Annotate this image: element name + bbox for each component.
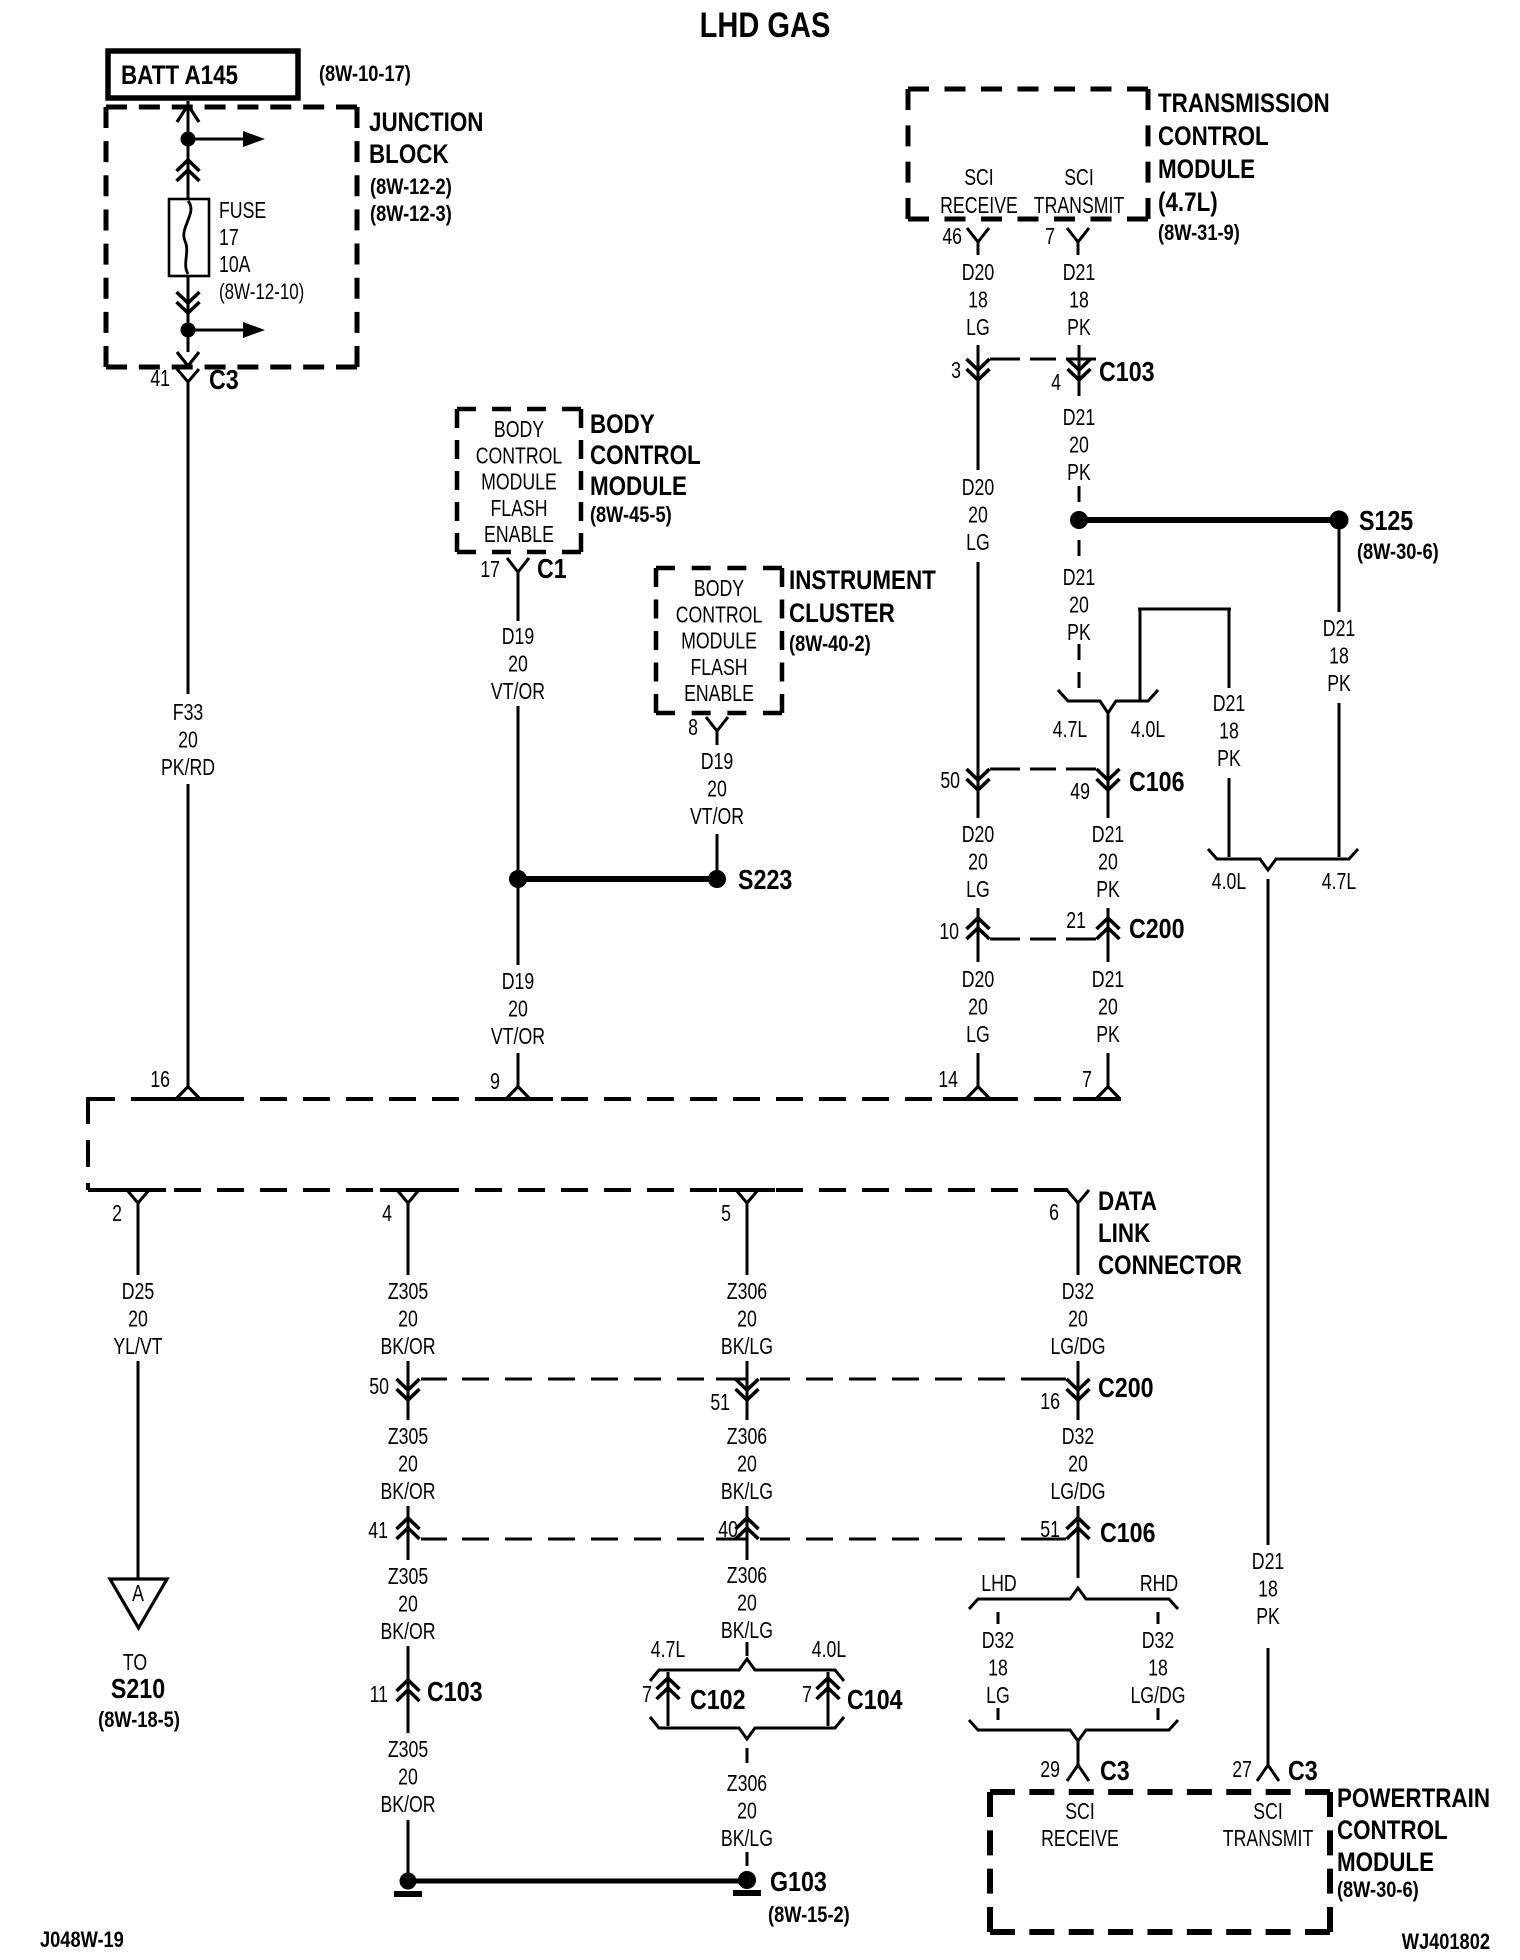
instrument cluster box — [656, 568, 782, 713]
fuse 17 10A — [169, 199, 209, 276]
wire D21 below C106 — [1107, 790, 1110, 818]
pin 4 label — [1051, 370, 1061, 396]
svg-text:14: 14 — [938, 1067, 958, 1093]
svg-text:C103: C103 — [427, 1677, 483, 1707]
svg-text:SCI: SCI — [1065, 1799, 1095, 1825]
connector C103 lower label — [427, 1677, 483, 1707]
svg-text:20: 20 — [128, 1306, 148, 1332]
wire Z305 upper — [407, 1216, 410, 1275]
svg-text:20: 20 — [1068, 1306, 1088, 1332]
svg-text:20: 20 — [178, 727, 198, 753]
node pin14 junction on bus — [943, 1087, 1013, 1100]
svg-text:20: 20 — [398, 1764, 418, 1790]
junction block label — [369, 108, 483, 226]
wire Z306 to C200 — [746, 1361, 749, 1400]
pin 51 label (C200) — [710, 1390, 730, 1416]
svg-text:LG/DG: LG/DG — [1050, 1479, 1105, 1505]
connector C3 label — [209, 365, 239, 395]
svg-text:CONTROL: CONTROL — [1337, 1816, 1448, 1845]
svg-text:18: 18 — [1148, 1655, 1168, 1681]
svg-text:C103: C103 — [1099, 357, 1155, 387]
svg-text:Z306: Z306 — [727, 1563, 767, 1589]
wire label D21 18 PK (right) — [1323, 616, 1355, 697]
svg-text:20: 20 — [1069, 592, 1089, 618]
svg-text:C106: C106 — [1129, 767, 1185, 797]
svg-text:BODY: BODY — [590, 410, 655, 439]
svg-text:TO: TO — [123, 1650, 147, 1676]
wire SCI receive to C103 — [977, 345, 980, 382]
bus solid segment at pin 4 — [380, 1188, 436, 1192]
svg-text:16: 16 — [150, 1067, 170, 1093]
wire to JB edge — [187, 337, 190, 352]
svg-text:J048W-19: J048W-19 — [40, 1929, 124, 1953]
pin 16 label — [150, 1067, 170, 1093]
instrument cluster label — [789, 566, 936, 656]
svg-text:C200: C200 — [1098, 1373, 1154, 1403]
TCM label — [1158, 89, 1330, 245]
svg-text:BK/OR: BK/OR — [380, 1479, 435, 1505]
DLC pin 5 label — [721, 1201, 731, 1227]
svg-text:7: 7 — [1082, 1067, 1092, 1093]
wire D21 to PCM upper — [1267, 879, 1270, 1545]
svg-text:Z306: Z306 — [727, 1424, 767, 1450]
C103 pin 11 chevron — [397, 1677, 420, 1704]
svg-text:4.7L: 4.7L — [651, 1637, 685, 1663]
pin 29 label — [1040, 1757, 1060, 1783]
DLC pin 2 label — [112, 1201, 122, 1227]
C200 pin 51 chevron — [736, 1376, 759, 1403]
wire D32 RHD dash lower — [1157, 1708, 1160, 1720]
svg-text:D19: D19 — [502, 624, 534, 650]
brace merge below C102/C104 — [650, 1717, 844, 1739]
svg-text:20: 20 — [1069, 432, 1089, 458]
brace split LHD/RHD — [969, 1588, 1178, 1609]
brace split 4.7L/4.0L (C102/C104) — [650, 1659, 844, 1681]
svg-text:50: 50 — [940, 768, 960, 794]
svg-text:RECEIVE: RECEIVE — [940, 193, 1018, 219]
pin 51 label (C106) — [1040, 1517, 1060, 1543]
wire Z305 below C106 — [407, 1539, 410, 1560]
svg-text:20: 20 — [737, 1798, 757, 1824]
svg-text:D21: D21 — [1252, 1549, 1284, 1575]
title LHD GAS — [700, 5, 831, 44]
C104 stem — [827, 1672, 830, 1726]
C200 lower row dashes — [421, 1378, 1066, 1381]
pin 7 label (TCM) — [1045, 224, 1055, 250]
svg-text:LINK: LINK — [1098, 1219, 1150, 1248]
wire D21 18 PK jog down — [1228, 609, 1231, 688]
arrow up to BATT — [177, 105, 199, 122]
svg-text:20: 20 — [398, 1451, 418, 1477]
svg-text:20: 20 — [737, 1451, 757, 1477]
wire battery to fuse — [187, 101, 190, 135]
svg-text:18: 18 — [1258, 1576, 1278, 1602]
BCM label — [590, 410, 701, 527]
pin 50 label — [940, 768, 960, 794]
svg-text:INSTRUMENT: INSTRUMENT — [789, 566, 936, 595]
splice S125 bar — [1079, 517, 1334, 523]
svg-text:TRANSMIT: TRANSMIT — [1034, 193, 1125, 219]
node pin16 junction on bus — [153, 1087, 223, 1100]
svg-text:SCI: SCI — [1064, 165, 1094, 191]
wire Z305 to ground — [407, 1820, 410, 1873]
svg-text:VT/OR: VT/OR — [491, 679, 545, 705]
wire label Z306 20 BK/LG (1) — [721, 1279, 773, 1360]
wire D21 to pin 27 — [1267, 1648, 1270, 1765]
svg-text:CONTROL: CONTROL — [590, 441, 701, 470]
svg-text:D20: D20 — [962, 475, 994, 501]
svg-text:FLASH: FLASH — [490, 496, 547, 522]
pin 27 label — [1232, 1757, 1252, 1783]
pin 7 label (C104) — [802, 1682, 812, 1708]
wire Z306 dash below merge — [746, 1748, 749, 1763]
C200 pin 50 chevron — [397, 1376, 420, 1403]
wire Z305 to C106 — [407, 1506, 410, 1539]
wire 4.0L branch — [1138, 609, 1231, 700]
wire D32 to C106 — [1077, 1506, 1080, 1539]
data link connector label — [1098, 1187, 1242, 1280]
C106 lower row dashes — [421, 1538, 1066, 1541]
C106 pin 40 chevron — [736, 1515, 759, 1542]
svg-text:D21: D21 — [1092, 967, 1124, 993]
svg-text:18: 18 — [988, 1655, 1008, 1681]
connector C3 pin symbol — [177, 369, 199, 395]
wire D32 below C106 pin51 — [1077, 1539, 1080, 1578]
svg-text:CONNECTOR: CONNECTOR — [1098, 1251, 1242, 1280]
bus solid segment at pin 6 — [1050, 1188, 1068, 1192]
connector C1 pin symbol — [507, 558, 529, 621]
wire label D19 20 VT/OR (BCM) — [491, 624, 545, 705]
svg-text:C106: C106 — [1100, 1518, 1156, 1548]
wire label D21 20 PK (above S125) — [1063, 405, 1095, 486]
svg-text:18: 18 — [1219, 718, 1239, 744]
wire label D25 20 YL/VT — [113, 1279, 163, 1360]
svg-text:LG: LG — [966, 1022, 990, 1048]
svg-text:BK/OR: BK/OR — [380, 1792, 435, 1818]
pin 49 label — [1070, 779, 1090, 805]
wire label Z305 20 BK/OR (1) — [380, 1279, 435, 1360]
svg-text:18: 18 — [1329, 643, 1349, 669]
splice S125 right dot — [1330, 511, 1349, 530]
svg-text:4: 4 — [1051, 370, 1061, 396]
svg-text:2: 2 — [112, 1201, 122, 1227]
wire S125 branch to lower brace — [1338, 703, 1341, 857]
svg-text:D20: D20 — [962, 822, 994, 848]
splice S223 right dot — [708, 870, 726, 888]
svg-text:20: 20 — [508, 651, 528, 677]
svg-text:49: 49 — [1070, 779, 1090, 805]
wire label D32 20 LG/DG (1) — [1050, 1279, 1105, 1360]
svg-text:(8W-15-2): (8W-15-2) — [768, 1904, 850, 1928]
svg-text:(8W-40-2): (8W-40-2) — [789, 633, 871, 657]
DLC pin 6 label — [1049, 1200, 1059, 1226]
svg-text:16: 16 — [1040, 1389, 1060, 1415]
pin 41 label (C106) — [368, 1518, 388, 1544]
PCM label — [1337, 1784, 1490, 1902]
wire cluster to S223 — [716, 834, 719, 870]
svg-text:CONTROL: CONTROL — [1158, 122, 1269, 151]
svg-text:4.7L: 4.7L — [1053, 717, 1087, 743]
svg-text:4.7L: 4.7L — [1322, 869, 1356, 895]
wire label D32 20 LG/DG (2) — [1050, 1424, 1105, 1505]
body control module box — [457, 409, 581, 552]
wire Z305 mid — [407, 1400, 410, 1420]
pin 17 label — [480, 557, 500, 583]
svg-text:JUNCTION: JUNCTION — [369, 108, 483, 137]
wire label D21 20 PK (mid) — [1092, 822, 1124, 903]
wire D21 dashes to brace — [1078, 644, 1081, 688]
wire D21 dash below S125 — [1078, 540, 1081, 556]
bus left vertical dashed wire — [86, 1097, 90, 1190]
ground G103 node — [733, 1871, 761, 1893]
TCM pin 46 symbol — [967, 228, 989, 255]
svg-text:LG: LG — [966, 315, 990, 341]
pin 10 label — [939, 919, 959, 945]
wire fuse to lower dot — [187, 276, 190, 326]
C104 pin 7 chevron — [817, 1675, 840, 1702]
svg-text:LHD: LHD — [981, 1571, 1016, 1597]
junction dot lower — [181, 323, 196, 338]
svg-text:50: 50 — [369, 1374, 389, 1400]
double chevron down — [177, 289, 200, 316]
svg-text:D25: D25 — [122, 1279, 154, 1305]
svg-text:BODY: BODY — [494, 417, 544, 443]
svg-text:CLUSTER: CLUSTER — [789, 599, 895, 628]
wire D21 below C200 — [1107, 939, 1110, 962]
svg-text:G103: G103 — [770, 1867, 827, 1897]
svg-text:Z305: Z305 — [388, 1737, 428, 1763]
svg-text:BK/LG: BK/LG — [721, 1334, 773, 1360]
svg-text:21: 21 — [1066, 908, 1086, 934]
splice S125 left dot — [1070, 511, 1088, 529]
svg-text:8: 8 — [688, 715, 698, 741]
svg-text:D19: D19 — [701, 749, 733, 775]
DLC pin 6 symbol — [1067, 1190, 1089, 1216]
bus solid segment at pin 2 — [110, 1188, 166, 1192]
svg-text:17: 17 — [480, 557, 500, 583]
bus solid segment at pin 5 — [719, 1188, 775, 1192]
svg-text:C3: C3 — [1288, 1756, 1318, 1786]
svg-text:46: 46 — [942, 224, 962, 250]
svg-text:TRANSMISSION: TRANSMISSION — [1158, 89, 1330, 118]
DLC pin 4 label — [382, 1201, 392, 1227]
svg-text:WJ401802: WJ401802 — [1402, 1931, 1490, 1955]
wire label D19 20 VT/OR (to DLC) — [491, 969, 545, 1050]
svg-text:40: 40 — [718, 1517, 738, 1543]
pin 16 label (C200) — [1040, 1389, 1060, 1415]
svg-text:(8W-45-5): (8W-45-5) — [590, 504, 672, 528]
C200 pin 21 chevron — [1097, 915, 1120, 942]
DLC pin 2 symbol — [127, 1190, 149, 1216]
pin 11 label — [370, 1682, 388, 1708]
feed arrow right upper — [188, 131, 265, 147]
svg-text:S125: S125 — [1359, 506, 1413, 536]
svg-text:MODULE: MODULE — [590, 472, 687, 501]
svg-text:20: 20 — [968, 849, 988, 875]
svg-text:D20: D20 — [962, 260, 994, 286]
brace 4.7L/4.0L upper — [1058, 690, 1158, 713]
svg-text:(4.7L): (4.7L) — [1158, 188, 1218, 217]
upper bus dashed wire — [88, 1097, 1121, 1101]
wire label D20 20 LG (low) — [962, 967, 994, 1048]
wire Z306 dash to brace — [746, 1642, 749, 1656]
svg-text:7: 7 — [802, 1682, 812, 1708]
svg-text:PK/RD: PK/RD — [161, 755, 215, 781]
C102 stem — [667, 1672, 670, 1726]
wire Z306 to C106 — [746, 1506, 749, 1539]
wire D20 below C103 — [977, 382, 980, 470]
svg-text:F33: F33 — [173, 700, 204, 726]
svg-text:18: 18 — [1069, 287, 1089, 313]
svg-text:D21: D21 — [1063, 565, 1095, 591]
C106 pin 49 chevron — [1097, 766, 1120, 793]
wire label D20 20 LG (upper) — [962, 475, 994, 556]
wire D32 LHD dash lower — [997, 1708, 1000, 1720]
wire label D21 18 PK (PCM) — [1252, 1549, 1284, 1630]
svg-text:S210: S210 — [111, 1674, 165, 1704]
svg-text:PK: PK — [1096, 1022, 1120, 1048]
C200 row line — [990, 938, 1096, 941]
brace merge LHD/RHD — [969, 1720, 1178, 1741]
svg-text:C104: C104 — [847, 1685, 903, 1715]
C106 row line — [990, 768, 1096, 771]
svg-text:(8W-18-5): (8W-18-5) — [98, 1709, 180, 1733]
svg-text:PK: PK — [1067, 460, 1091, 486]
svg-text:BLOCK: BLOCK — [369, 140, 449, 169]
wire S223 down — [517, 888, 520, 965]
svg-text:Z306: Z306 — [727, 1771, 767, 1797]
svg-text:MODULE: MODULE — [1337, 1848, 1434, 1877]
wire Z305 to C200 — [407, 1361, 410, 1400]
battery feed BATT A145 box — [108, 51, 298, 98]
wire label Z306 20 BK/LG (3) — [721, 1563, 773, 1644]
svg-text:D21: D21 — [1323, 616, 1355, 642]
wire dot to chevrons — [187, 146, 190, 199]
svg-text:CONTROL: CONTROL — [476, 443, 563, 469]
svg-text:CONTROL: CONTROL — [676, 602, 763, 628]
wire D32 LHD dash upper — [997, 1612, 1000, 1624]
svg-text:20: 20 — [707, 776, 727, 802]
pin 21 label — [1066, 908, 1086, 934]
svg-text:A: A — [132, 1581, 144, 1607]
connector C104 label — [847, 1685, 903, 1715]
double chevron up — [177, 157, 200, 184]
C103 row line — [990, 358, 1096, 361]
svg-text:(8W-12-3): (8W-12-3) — [370, 203, 452, 227]
C106 pin 51 chevron — [1067, 1515, 1090, 1542]
pin 8 label — [688, 715, 698, 741]
brace labels 4.0L 4.7L lower — [1212, 869, 1356, 895]
svg-text:FLASH: FLASH — [690, 655, 747, 681]
svg-text:D32: D32 — [982, 1628, 1014, 1654]
wire D25 lower — [137, 1361, 140, 1578]
lower bus dashed wire — [88, 1188, 1066, 1192]
svg-text:MODULE: MODULE — [1158, 155, 1255, 184]
svg-text:20: 20 — [968, 502, 988, 528]
svg-text:PK: PK — [1067, 315, 1091, 341]
wire Z305 below C103 — [407, 1701, 410, 1733]
wire label D19 20 VT/OR (cluster) — [690, 749, 744, 830]
svg-text:PK: PK — [1067, 620, 1091, 646]
svg-text:4.0L: 4.0L — [1212, 869, 1246, 895]
svg-text:LG: LG — [966, 877, 990, 903]
wire to lower brace left — [1228, 778, 1231, 857]
wire D32 RHD dash upper — [1157, 1612, 1160, 1624]
svg-text:(8W-30-6): (8W-30-6) — [1337, 1879, 1419, 1903]
DLC pin 4 symbol — [397, 1190, 419, 1216]
pin 3 label — [951, 358, 961, 384]
svg-text:MODULE: MODULE — [481, 469, 557, 495]
svg-text:D21: D21 — [1213, 691, 1245, 717]
TCM pin names — [940, 165, 1125, 219]
wire Z306 below C106 — [746, 1539, 749, 1560]
svg-text:Z305: Z305 — [388, 1564, 428, 1590]
svg-text:DATA: DATA — [1098, 1187, 1157, 1216]
svg-text:BK/LG: BK/LG — [721, 1826, 773, 1852]
splice S223 bar — [518, 876, 713, 882]
brace 4.0L/4.7L lower — [1208, 849, 1358, 870]
svg-text:51: 51 — [710, 1390, 730, 1416]
svg-text:LG/DG: LG/DG — [1050, 1334, 1105, 1360]
svg-text:BK/LG: BK/LG — [721, 1618, 773, 1644]
svg-text:7: 7 — [642, 1682, 652, 1708]
wire SCI transmit to C103 — [1078, 345, 1081, 396]
svg-text:D20: D20 — [962, 967, 994, 993]
svg-text:51: 51 — [1040, 1517, 1060, 1543]
connector C106 lower label — [1100, 1518, 1156, 1548]
wire D21 to C200 — [1107, 908, 1110, 918]
svg-text:(8W-31-9): (8W-31-9) — [1158, 222, 1240, 246]
LHD RHD labels — [981, 1571, 1178, 1597]
connector C1 label — [537, 554, 567, 584]
svg-text:VT/OR: VT/OR — [491, 1024, 545, 1050]
wire Z306 upper — [746, 1216, 749, 1275]
svg-text:D32: D32 — [1142, 1628, 1174, 1654]
splice S223 left dot — [509, 870, 527, 888]
svg-text:20: 20 — [1068, 1451, 1088, 1477]
svg-text:29: 29 — [1040, 1757, 1060, 1783]
C106 pin 41 chevron — [397, 1515, 420, 1542]
wire label Z305 20 BK/OR (4) — [380, 1737, 435, 1818]
C103 pin 4 chevron — [1068, 356, 1091, 383]
node pin7 junction on bus — [1073, 1087, 1121, 1100]
svg-text:VT/OR: VT/OR — [690, 804, 744, 830]
svg-text:C200: C200 — [1129, 914, 1185, 944]
svg-text:20: 20 — [737, 1306, 757, 1332]
brace labels 4.7L 4.0L upper — [1053, 717, 1165, 743]
node pin9 junction on bus — [483, 1087, 553, 1100]
svg-text:5: 5 — [721, 1201, 731, 1227]
pin 7 label (C102) — [642, 1682, 652, 1708]
svg-text:4.0L: 4.0L — [812, 1637, 846, 1663]
ground G103 left node — [394, 1873, 422, 1895]
wire D20 to C200 — [977, 908, 980, 918]
wire D20 to C106 — [977, 562, 980, 769]
svg-text:RHD: RHD — [1140, 1571, 1178, 1597]
wire to pin 7 bus — [1107, 1053, 1110, 1089]
svg-text:BK/LG: BK/LG — [721, 1479, 773, 1505]
wire brace to C106 — [1107, 713, 1110, 769]
C200 pin 10 chevron — [967, 915, 990, 942]
wire label Z305 20 BK/OR (2) — [380, 1424, 435, 1505]
svg-text:20: 20 — [508, 996, 528, 1022]
wire Z305 to C103 — [407, 1646, 410, 1680]
svg-text:Z305: Z305 — [388, 1279, 428, 1305]
C200 pin 16 chevron — [1067, 1376, 1090, 1403]
wire D19 BCM to S223 — [517, 706, 520, 871]
wire D20 below C200 — [977, 939, 980, 962]
svg-text:PK: PK — [1217, 746, 1241, 772]
